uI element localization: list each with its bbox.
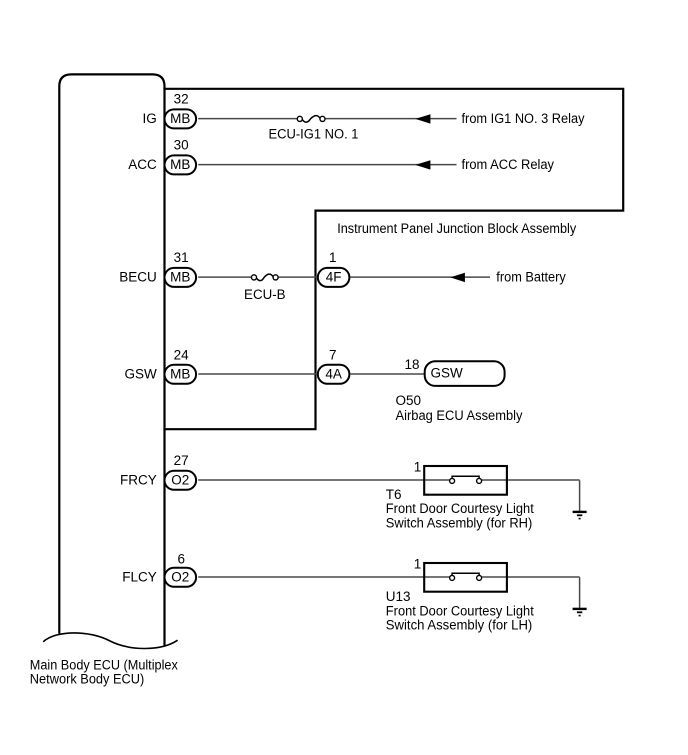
svg-text:ACC: ACC xyxy=(128,157,157,172)
svg-text:from ACC Relay: from ACC Relay xyxy=(462,157,555,172)
svg-text:31: 31 xyxy=(174,250,189,265)
svg-text:O50: O50 xyxy=(396,393,422,408)
fuse ECU-IG1 NO. 1 xyxy=(297,116,302,121)
svg-text:6: 6 xyxy=(177,551,185,566)
svg-text:32: 32 xyxy=(174,91,189,106)
arrow from IG1 NO. 3 Relay xyxy=(415,114,430,123)
svg-text:Airbag ECU Assembly: Airbag ECU Assembly xyxy=(396,408,523,423)
svg-text:4F: 4F xyxy=(326,269,342,284)
svg-text:GSW: GSW xyxy=(431,366,464,381)
svg-text:24: 24 xyxy=(174,347,190,362)
svg-text:Switch Assembly (for LH): Switch Assembly (for LH) xyxy=(386,618,533,633)
Main Body ECU box xyxy=(59,74,164,646)
arrow from Battery xyxy=(450,273,465,282)
connector O2 pin 27 xyxy=(165,471,197,490)
svg-text:4A: 4A xyxy=(325,366,342,381)
wire ACC row xyxy=(198,164,456,166)
connector 4F xyxy=(318,268,350,287)
svg-text:FRCY: FRCY xyxy=(120,472,157,487)
svg-text:GSW: GSW xyxy=(125,366,158,381)
svg-text:U13: U13 xyxy=(386,589,411,604)
svg-text:1: 1 xyxy=(414,557,422,572)
connector O2 pin 6 xyxy=(165,568,197,587)
svg-text:Front Door Courtesy Light: Front Door Courtesy Light xyxy=(386,603,534,618)
svg-text:MB: MB xyxy=(170,269,190,284)
wire GSW row xyxy=(198,373,317,375)
connector MB pin 31 xyxy=(165,268,197,287)
svg-text:from Battery: from Battery xyxy=(496,269,566,284)
svg-text:from IG1 NO. 3 Relay: from IG1 NO. 3 Relay xyxy=(462,111,585,126)
connector MB pin 24 xyxy=(165,365,197,384)
wire FLCY row xyxy=(198,576,449,578)
connector GSW (Airbag ECU) xyxy=(425,361,505,386)
connector 4A xyxy=(318,365,350,384)
connector MB pin 30 xyxy=(165,155,197,174)
ground (FLCY) xyxy=(579,577,581,608)
svg-text:Network Body ECU): Network Body ECU) xyxy=(30,672,145,687)
svg-text:7: 7 xyxy=(329,347,337,362)
arrow from ACC Relay xyxy=(415,160,430,169)
wire BECU row xyxy=(198,276,251,278)
svg-text:30: 30 xyxy=(174,137,189,152)
svg-text:18: 18 xyxy=(404,357,419,372)
svg-text:1: 1 xyxy=(414,460,422,475)
fuse ECU-B xyxy=(251,275,256,280)
svg-text:O2: O2 xyxy=(171,569,189,584)
wire FRCY row xyxy=(198,479,449,481)
switch U13 xyxy=(424,563,507,592)
ground (FRCY) xyxy=(579,480,581,511)
svg-text:Switch Assembly (for RH): Switch Assembly (for RH) xyxy=(386,515,533,530)
svg-text:Instrument Panel Junction Bloc: Instrument Panel Junction Block Assembly xyxy=(337,221,576,236)
svg-text:Main Body ECU (Multiplex: Main Body ECU (Multiplex xyxy=(30,657,178,672)
svg-text:BECU: BECU xyxy=(119,269,157,284)
switch T6 xyxy=(424,466,507,495)
svg-text:T6: T6 xyxy=(386,487,402,502)
svg-text:MB: MB xyxy=(170,366,190,381)
svg-text:IG: IG xyxy=(143,111,157,126)
svg-text:FLCY: FLCY xyxy=(122,569,157,584)
connector MB pin 32 xyxy=(165,109,197,128)
svg-text:O2: O2 xyxy=(171,472,189,487)
svg-text:ECU-B: ECU-B xyxy=(244,287,286,302)
svg-text:MB: MB xyxy=(170,157,190,172)
wire IG row xyxy=(198,118,297,120)
svg-text:MB: MB xyxy=(170,111,190,126)
svg-text:1: 1 xyxy=(329,250,337,265)
svg-text:27: 27 xyxy=(174,453,189,468)
svg-text:Front Door Courtesy Light: Front Door Courtesy Light xyxy=(386,501,534,516)
Instrument Panel Junction Block Assembly outline xyxy=(163,89,623,429)
svg-text:ECU-IG1 NO. 1: ECU-IG1 NO. 1 xyxy=(269,126,359,141)
torn edge wave xyxy=(43,633,177,649)
